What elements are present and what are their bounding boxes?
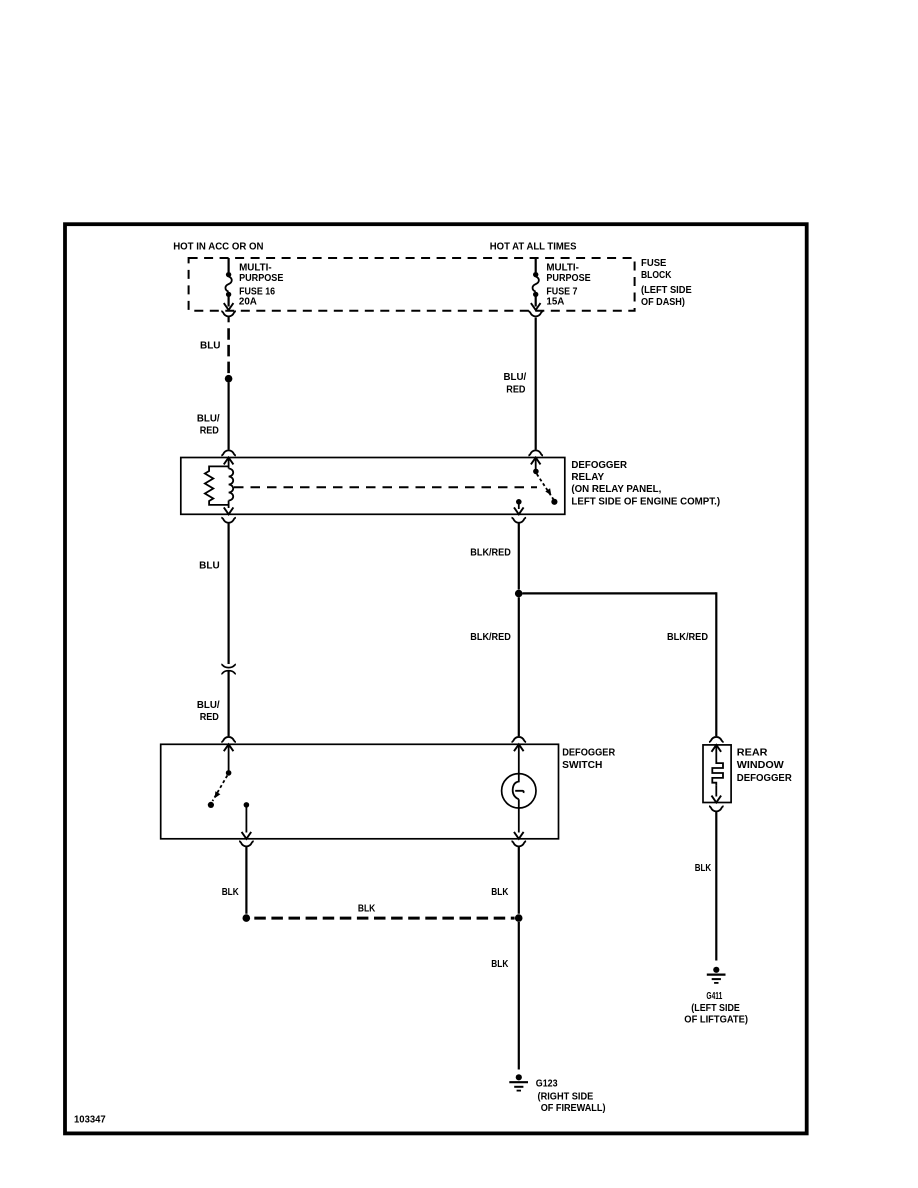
- indicator lamp wire bottom: [518, 799, 520, 832]
- wire BLK/RED right branch down: [715, 592, 717, 736]
- wire BLU (dashed) from fuse 16: [228, 317, 230, 322]
- ground G411: [707, 967, 726, 983]
- svg-text:DEFOGGER: DEFOGGER: [737, 773, 792, 784]
- relay switch contact (top): [535, 459, 537, 469]
- relay coil bottom arrow (down): [224, 507, 234, 514]
- svg-text:G123: G123: [536, 1078, 558, 1089]
- svg-text:(LEFT SIDE: (LEFT SIDE: [641, 285, 692, 296]
- svg-text:15A: 15A: [546, 297, 564, 308]
- wire BLU/RED right: [535, 318, 537, 450]
- connector above rear window defogger: [709, 737, 724, 742]
- wire BLK/RED below relay: [518, 523, 520, 589]
- relay switch input arrow (up): [531, 458, 541, 465]
- in-line connector on BLU wire: [221, 664, 236, 667]
- rear window defogger box: [703, 745, 731, 803]
- defogger switch output contact: [244, 802, 250, 808]
- splice dot left BLK: [243, 914, 251, 922]
- svg-text:DEFOGGER: DEFOGGER: [571, 460, 627, 471]
- svg-text:MULTI-: MULTI-: [546, 262, 579, 273]
- svg-text:103347: 103347: [74, 1114, 106, 1125]
- svg-text:HOT IN ACC OR ON: HOT IN ACC OR ON: [173, 242, 263, 253]
- defogger switch blade (dashed with arrow): [213, 776, 228, 802]
- svg-text:OF LIFTGATE): OF LIFTGATE): [684, 1014, 748, 1025]
- svg-text:(ON RELAY PANEL,: (ON RELAY PANEL,: [571, 484, 661, 495]
- ground G123: [509, 1074, 528, 1090]
- svg-text:RED: RED: [200, 426, 219, 437]
- wire BLK to ground G123: [518, 922, 520, 1070]
- connector below fuse 16: [221, 311, 236, 316]
- svg-text:RED: RED: [506, 385, 525, 396]
- svg-text:BLU/: BLU/: [197, 414, 220, 425]
- svg-text:RED: RED: [200, 712, 219, 723]
- connector above defogger switch lamp: [512, 737, 527, 742]
- indicator lamp DEF: [502, 774, 536, 808]
- relay resistor (parallel with coil): [205, 466, 229, 505]
- svg-text:BLK: BLK: [491, 887, 508, 898]
- fuse block boundary (dashed): [189, 258, 635, 311]
- connector below rear window defogger: [709, 806, 724, 811]
- lamp filament: [513, 774, 524, 800]
- svg-text:OF DASH): OF DASH): [641, 297, 685, 308]
- defogger switch box: [161, 744, 559, 839]
- svg-text:BLOCK: BLOCK: [641, 270, 671, 281]
- svg-text:BLK: BLK: [695, 863, 712, 874]
- svg-text:20A: 20A: [239, 297, 257, 308]
- svg-text:BLK: BLK: [358, 903, 375, 914]
- indicator lamp arrow (up): [514, 744, 524, 751]
- connector below relay coil: [221, 518, 236, 523]
- connector below fuse 7: [528, 311, 543, 316]
- svg-text:WINDOW: WINDOW: [737, 760, 785, 771]
- svg-text:BLU: BLU: [199, 561, 220, 572]
- connector below switch left output: [239, 841, 254, 846]
- relay control dashed line: [234, 486, 537, 488]
- wire BLK/RED down to switch lamp: [518, 597, 520, 736]
- indicator lamp wire top: [518, 746, 520, 773]
- svg-text:MULTI-: MULTI-: [239, 262, 272, 273]
- fuse F16 multi-purpose fuse 16 20A: [224, 258, 234, 310]
- svg-text:REAR: REAR: [737, 747, 768, 758]
- wire BLU/RED to switch: [228, 672, 230, 737]
- defogger switch contact S1: [228, 746, 230, 771]
- relay switch output contact: [516, 499, 522, 505]
- rear defogger output arrow (down): [715, 786, 717, 797]
- svg-text:BLK/RED: BLK/RED: [667, 632, 708, 643]
- wire BLK right: [518, 847, 520, 914]
- wire BLK to ground G411: [715, 812, 717, 961]
- border frame: [65, 224, 807, 1133]
- connector above defogger switch input: [221, 737, 236, 742]
- svg-text:BLU/: BLU/: [504, 372, 527, 383]
- wire BLK/RED horizontal to rear defogger: [523, 592, 717, 594]
- wire BLK jumper (dashed): [254, 917, 514, 920]
- junction splice BLK: [515, 914, 523, 922]
- junction splice BLK/RED: [515, 590, 523, 598]
- connector below switch lamp output: [512, 841, 527, 846]
- wire BLU below relay: [228, 523, 230, 664]
- svg-text:BLK/RED: BLK/RED: [470, 632, 511, 643]
- relay coil K1: [229, 459, 234, 508]
- svg-text:BLU: BLU: [200, 341, 221, 352]
- defogger switch input arrow (up): [224, 744, 234, 751]
- svg-text:BLK: BLK: [222, 887, 239, 898]
- svg-text:RELAY: RELAY: [571, 472, 604, 483]
- svg-text:SWITCH: SWITCH: [562, 760, 602, 771]
- svg-text:BLK/RED: BLK/RED: [470, 547, 511, 558]
- defogger relay box: [181, 458, 565, 515]
- connector below relay switch output: [512, 518, 527, 523]
- wire BLK left: [245, 847, 247, 914]
- rear defogger heating element: [712, 747, 723, 786]
- svg-text:BLK: BLK: [491, 959, 508, 970]
- splice junction on left wire: [225, 375, 233, 383]
- svg-text:LEFT SIDE OF ENGINE COMPT.): LEFT SIDE OF ENGINE COMPT.): [571, 497, 720, 508]
- svg-text:FUSE: FUSE: [641, 258, 667, 269]
- svg-text:PURPOSE: PURPOSE: [546, 273, 591, 284]
- svg-text:(RIGHT SIDE: (RIGHT SIDE: [538, 1091, 594, 1102]
- fuse F7 multi-purpose fuse 7 15A: [531, 258, 541, 310]
- rear defogger input arrow (up): [712, 745, 722, 752]
- connector above relay switch pin: [528, 450, 543, 455]
- svg-text:G411: G411: [706, 991, 722, 1002]
- svg-text:PURPOSE: PURPOSE: [239, 273, 284, 284]
- wire BLU/RED left: [228, 383, 230, 450]
- relay switch blade (dashed with arrow): [537, 474, 554, 500]
- relay coil pin arrow (up): [224, 458, 234, 465]
- svg-text:HOT AT ALL TIMES: HOT AT ALL TIMES: [490, 242, 577, 253]
- svg-text:OF FIREWALL): OF FIREWALL): [541, 1103, 606, 1114]
- svg-text:(LEFT SIDE: (LEFT SIDE: [691, 1003, 740, 1014]
- svg-text:DEFOGGER: DEFOGGER: [562, 747, 615, 758]
- connector above relay coil pin: [221, 450, 236, 455]
- svg-text:BLU/: BLU/: [197, 700, 220, 711]
